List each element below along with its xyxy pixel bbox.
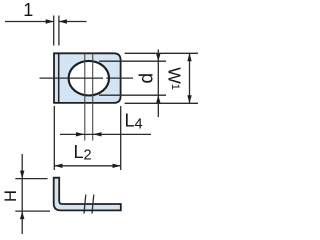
dim W1 top extension line xyxy=(125,52,198,54)
svg-text:L4: L4 xyxy=(125,111,143,133)
dim L4 arrow right xyxy=(93,132,101,136)
slotted hole xyxy=(69,61,109,96)
hole centerline left segment xyxy=(40,77,104,79)
dim L4 arrow left xyxy=(76,132,84,136)
dim W1 line xyxy=(189,53,191,103)
svg-text:d: d xyxy=(137,73,158,84)
dim H top extension line xyxy=(15,178,47,180)
step edge line xyxy=(58,54,60,103)
hole centerline right segment xyxy=(106,77,133,79)
dim d top extension line xyxy=(99,60,166,62)
dim W1 arrow bottom xyxy=(187,95,191,103)
dim d arrow bottom xyxy=(156,95,160,103)
plate top view body xyxy=(54,53,121,103)
dim H arrow bottom xyxy=(20,211,24,219)
dim W1 arrow top xyxy=(187,53,191,61)
dim 1 extension line right xyxy=(58,16,60,46)
dim d bottom extension line xyxy=(99,94,166,96)
break mark right (side view) xyxy=(92,195,94,214)
svg-text:L2: L2 xyxy=(74,142,92,163)
svg-text:W1: W1 xyxy=(165,67,185,90)
dim L4 line xyxy=(60,133,151,135)
svg-text:H: H xyxy=(2,190,20,202)
dim d line xyxy=(157,50,159,118)
dim 1 line left segment xyxy=(5,21,54,23)
dim H arrow top xyxy=(20,171,24,179)
dim 1 extension line left xyxy=(53,16,55,46)
L profile side view xyxy=(54,178,121,211)
dim W1 bottom extension line xyxy=(125,102,198,104)
break line right (top view) xyxy=(92,53,94,140)
svg-text:1: 1 xyxy=(23,0,33,20)
dim L2 arrow left xyxy=(54,164,62,168)
dim d arrow top xyxy=(156,54,160,62)
dim 1 arrow right xyxy=(59,19,67,23)
dim 1 line right segment xyxy=(59,21,87,23)
break mark left (side view) xyxy=(84,195,86,214)
L2 extension line left xyxy=(53,106,55,170)
dim L2 line xyxy=(54,165,120,167)
dim H bottom extension line xyxy=(15,210,50,212)
break line left (top view) xyxy=(84,53,86,140)
L2 extension line right xyxy=(120,106,122,170)
dim L2 arrow right xyxy=(113,164,121,168)
dim H line xyxy=(21,154,23,234)
dim 1 arrow left xyxy=(46,19,54,23)
